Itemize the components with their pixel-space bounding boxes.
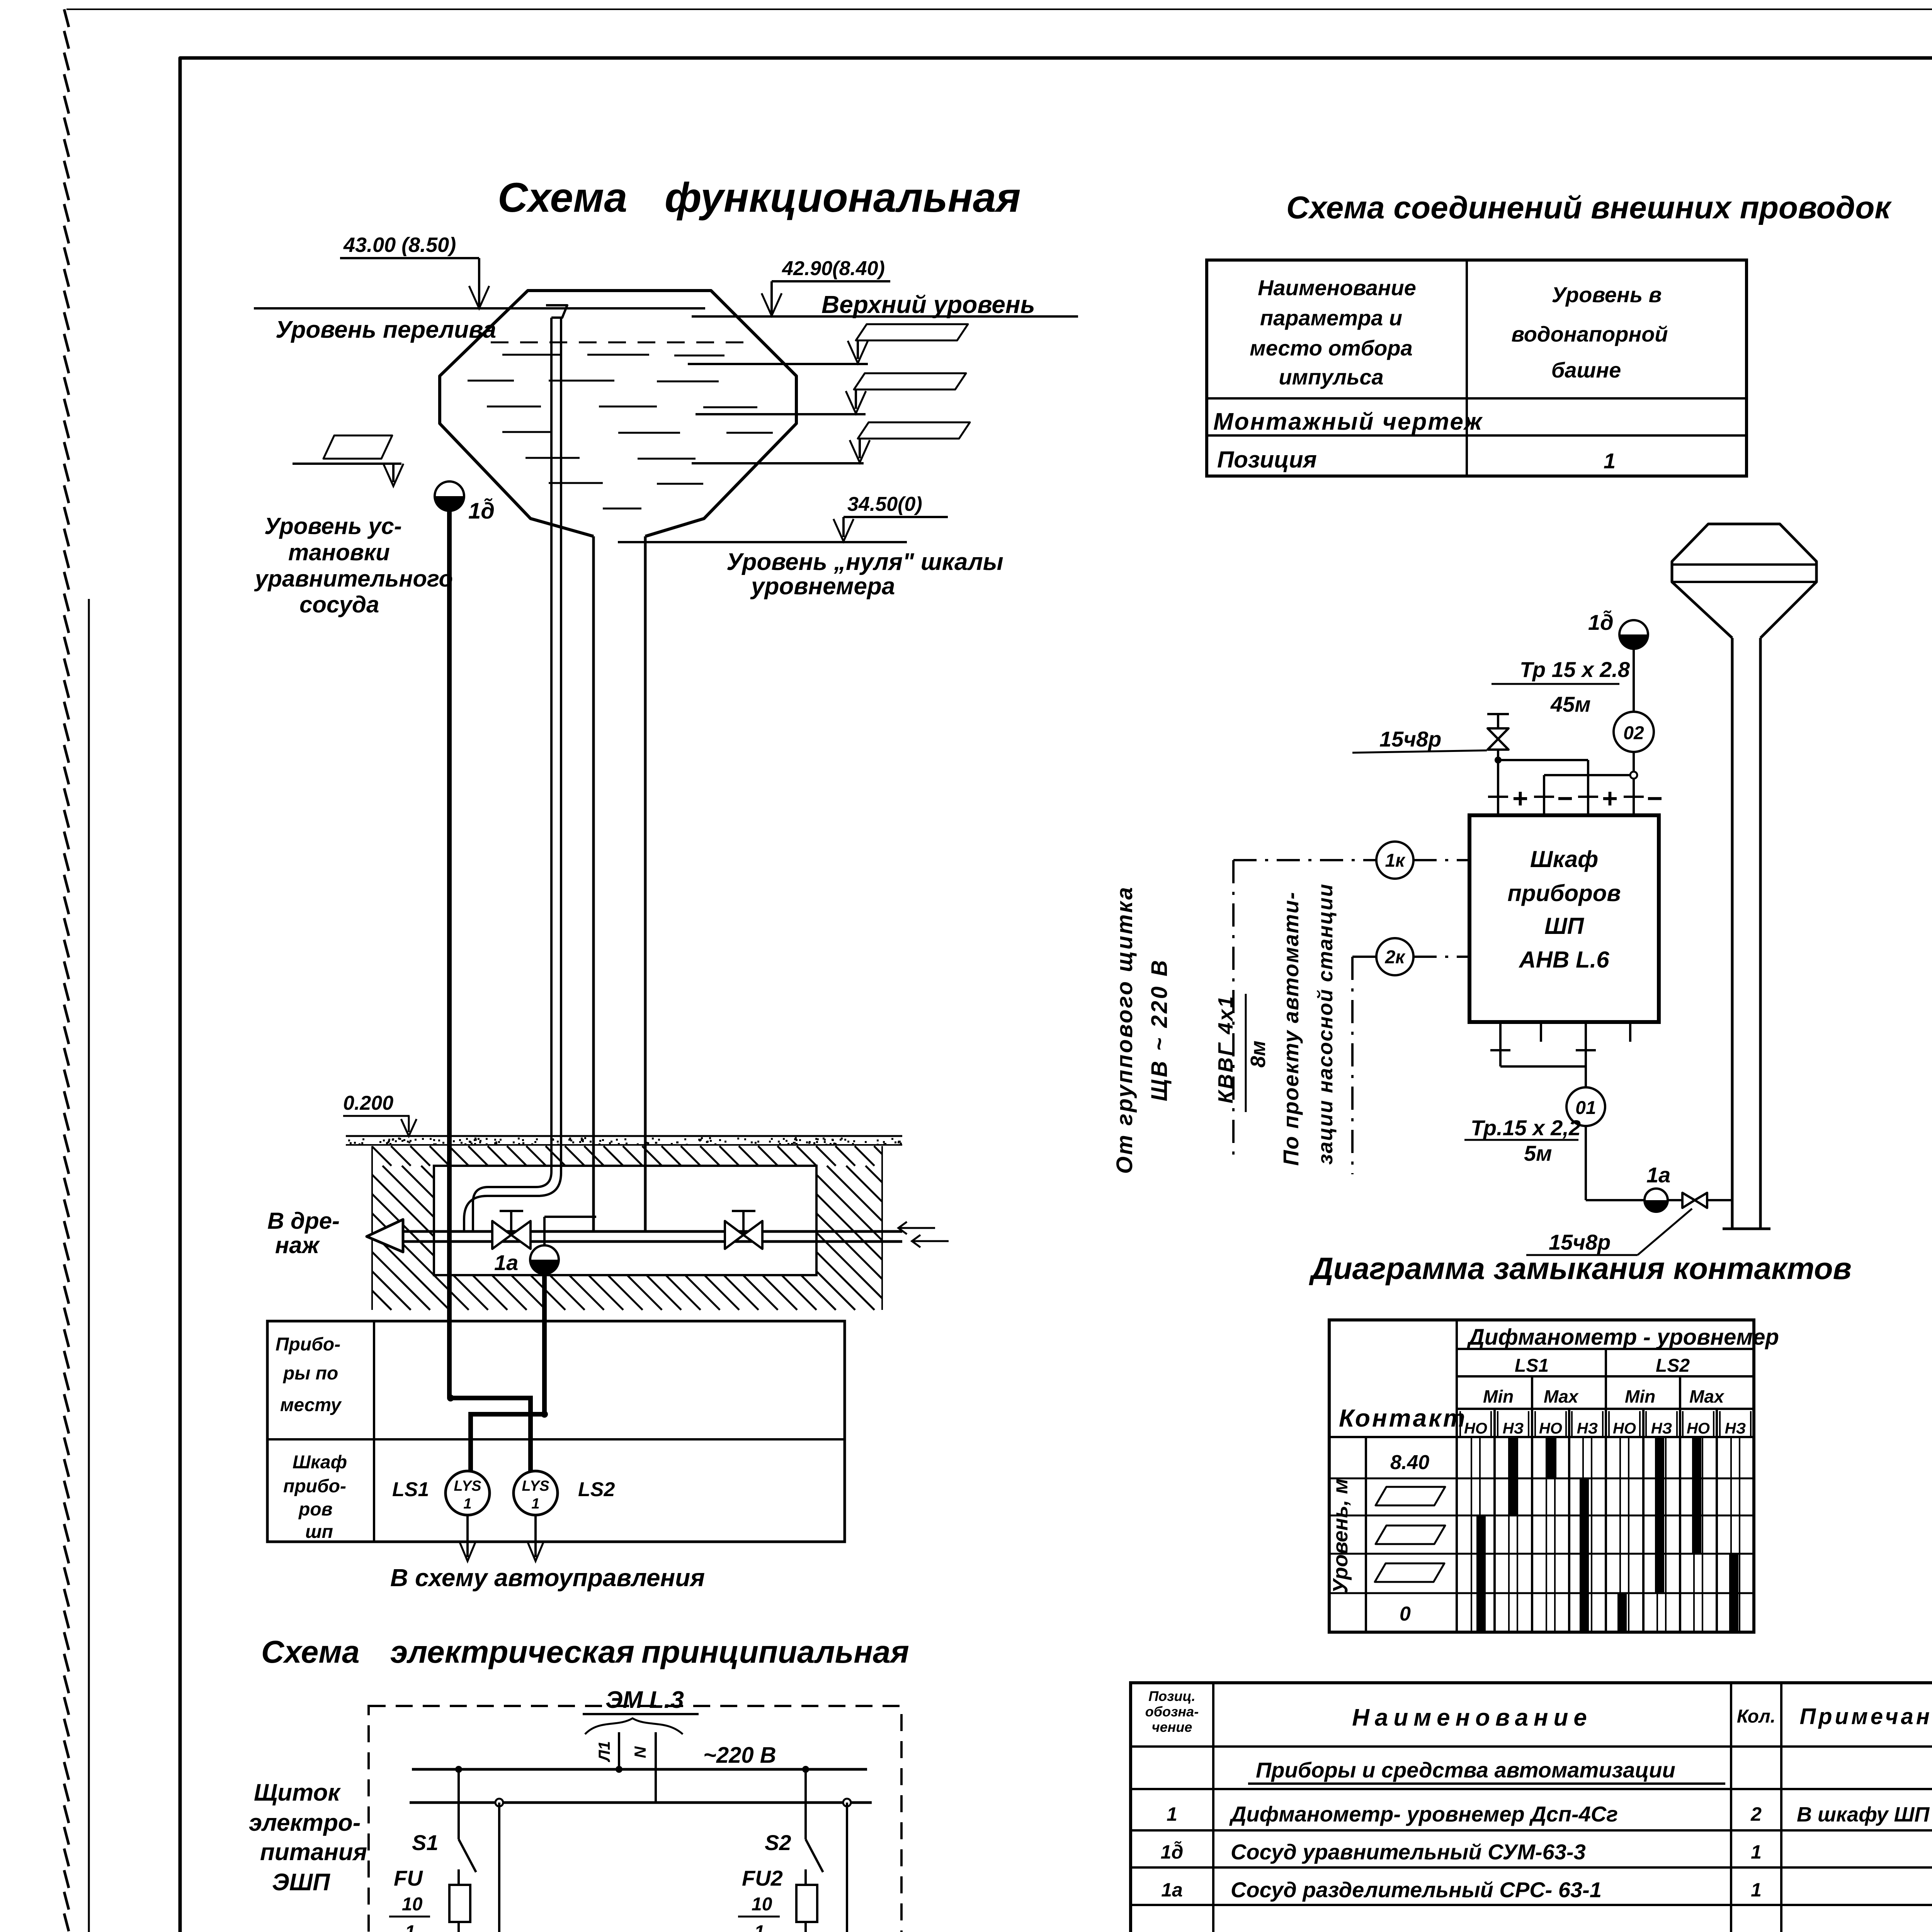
level switch instrument LYS 1 (right circle): [514, 1471, 558, 1515]
drain pipe: [403, 1231, 902, 1242]
label 15ч8р with leader at tower base: [1526, 1209, 1692, 1255]
svg-text:15ч8р: 15ч8р: [1379, 727, 1441, 751]
svg-text:обозна-: обозна-: [1145, 1704, 1199, 1719]
НО НЗ labels: [1464, 1420, 1746, 1437]
svg-text:Уровень, м: Уровень, м: [1329, 1478, 1352, 1593]
svg-text:ЭШП: ЭШП: [272, 1869, 330, 1896]
title: Схема соединений внешних проводок: [1286, 190, 1892, 225]
svg-text:LYS: LYS: [522, 1478, 549, 1494]
svg-text:НЗ: НЗ: [1503, 1420, 1524, 1437]
cabinet label Шкаф приборов ШП АНВ L.6: [1507, 846, 1621, 973]
contact wires thin verticals: [1471, 1437, 1740, 1632]
svg-text:НО: НО: [1464, 1420, 1487, 1437]
valve 15ч8р (top left of cabinet): [1487, 714, 1509, 750]
level line 4: [692, 462, 864, 464]
title: Схема функциональная: [498, 174, 1020, 221]
water tower pictogram: [1672, 524, 1816, 1229]
label ЭМ L.3: [583, 1687, 699, 1734]
sheet top edge line: [66, 9, 1932, 10]
table header Уровень в водонапорной башне: [1511, 282, 1668, 382]
zero level line: [618, 541, 907, 543]
svg-text:шп: шп: [305, 1522, 333, 1542]
label 15ч8р with leader: [1352, 727, 1487, 753]
fuse FU2: [738, 1866, 817, 1932]
equalizing vessel 1д symbol: [435, 481, 464, 511]
svg-text:5м: 5м: [1524, 1141, 1552, 1165]
neutral wire to Б2 of LS1: [483, 1803, 500, 1932]
svg-text:2к: 2к: [1384, 947, 1406, 968]
svg-text:15ч8р: 15ч8р: [1549, 1230, 1611, 1254]
svg-text:АНВ L.6: АНВ L.6: [1518, 947, 1609, 973]
output arrows to automation: [460, 1515, 543, 1561]
svg-text:0.200: 0.200: [343, 1092, 393, 1114]
label Уровень нуля шкалы уровнемера: [726, 549, 1003, 600]
parts row 1а сосуд разделительный: [1161, 1878, 1762, 1902]
parameters table: [1207, 260, 1747, 476]
level line 3: [696, 413, 866, 415]
svg-text:LS2: LS2: [1656, 1355, 1690, 1376]
svg-text:Тр 15 х 2.8: Тр 15 х 2.8: [1520, 657, 1630, 682]
switch S1: [412, 1769, 476, 1872]
svg-text:−: −: [1647, 783, 1663, 813]
label Верхний уровень: [821, 291, 1035, 318]
impulse line from vessel 1a (thick): [471, 1274, 548, 1471]
level switch instrument LYS 1 (left circle): [446, 1471, 490, 1515]
title: Схема электрическая принципиальная: [261, 1634, 909, 1670]
svg-text:чение: чение: [1152, 1719, 1192, 1735]
svg-text:1: 1: [405, 1922, 415, 1932]
level flag 3 (parallelogram): [850, 422, 970, 463]
level value 0: [1400, 1603, 1411, 1625]
label Уровень перелива: [276, 316, 496, 343]
svg-text:~220 В: ~220 В: [703, 1743, 776, 1768]
svg-text:S1: S1: [412, 1830, 439, 1855]
svg-text:1д̃: 1д̃: [1161, 1841, 1184, 1863]
header Контакт: [1339, 1404, 1467, 1432]
svg-text:зации насосной станции: зации насосной станции: [1314, 883, 1337, 1165]
drain arrow head: [367, 1219, 403, 1252]
cable 1к circle and dash-dot run: [1233, 842, 1469, 1162]
svg-text:Наименование: Наименование: [1258, 276, 1416, 300]
svg-text:Монтажный чертеж: Монтажный чертеж: [1213, 408, 1483, 435]
svg-text:функциональная: функциональная: [665, 174, 1020, 221]
svg-text:НО: НО: [1613, 1420, 1636, 1437]
svg-text:8.40: 8.40: [1390, 1451, 1429, 1474]
svg-text:башне: башне: [1551, 358, 1621, 382]
svg-text:Схема соединений внешних пр: Схема соединений внешних проводок: [1286, 190, 1892, 225]
level value 8.40: [1390, 1451, 1429, 1474]
tank support shaft right wall: [644, 536, 647, 1231]
svg-text:сосуда: сосуда: [299, 592, 379, 617]
svg-text:1д̃: 1д̃: [468, 498, 495, 524]
row Позиция: [1217, 447, 1616, 473]
second valve on pipe: [725, 1211, 762, 1249]
svg-text:питания: питания: [260, 1839, 367, 1866]
svg-text:Дифманометр- уровнемер Дс: Дифманометр- уровнемер Дсп-4Сг: [1229, 1802, 1618, 1826]
separating vessel 1a (wiring diagram): [1645, 1163, 1670, 1212]
label 1д: [468, 498, 495, 524]
svg-text:НО: НО: [1539, 1420, 1562, 1437]
svg-text:02: 02: [1623, 723, 1644, 743]
concrete hatching around instrument pit: [372, 1146, 882, 1310]
label Уровень установки уравнительного сосуда: [254, 513, 453, 617]
parts row 1 дифманометр: [1167, 1802, 1930, 1826]
contact diagram table grid: [1329, 1320, 1754, 1632]
svg-text:8м: 8м: [1247, 1041, 1270, 1068]
svg-text:Min: Min: [1483, 1386, 1514, 1406]
svg-text:место отбора: место отбора: [1250, 336, 1412, 360]
instrument location table: [267, 1321, 845, 1542]
svg-text:НЗ: НЗ: [1577, 1420, 1598, 1437]
svg-text:Приборы и средства автомати: Приборы и средства автоматизации: [1256, 1758, 1675, 1782]
svg-text:S2: S2: [765, 1830, 791, 1855]
impulse line from 1д down to cabinet: [1633, 649, 1635, 775]
svg-text:1а: 1а: [1646, 1163, 1670, 1187]
water tank (octagon) of functional schema: [440, 291, 796, 536]
svg-text:10: 10: [752, 1894, 772, 1915]
fuse FU: [389, 1866, 470, 1932]
cable 2к circle and dash-dot run: [1352, 938, 1469, 1174]
svg-text:Щиток: Щиток: [254, 1779, 341, 1806]
level label 42.90(8.40): [762, 257, 890, 316]
svg-text:КВВГ 4х1: КВВГ 4х1: [1214, 995, 1237, 1103]
label ~220 В: [703, 1743, 776, 1768]
svg-text:НЗ: НЗ: [1725, 1420, 1746, 1437]
contact diagram Min Max headers: [1483, 1386, 1725, 1406]
svg-text:Кол.: Кол.: [1737, 1706, 1776, 1727]
svg-text:LS2: LS2: [578, 1478, 615, 1501]
svg-text:параметра и: параметра и: [1260, 306, 1402, 330]
instrument pit walls: [372, 1146, 882, 1310]
svg-text:Max: Max: [1689, 1386, 1725, 1406]
svg-text:Схема: Схема: [261, 1634, 360, 1670]
contact diagram header LS1: [1515, 1355, 1549, 1376]
flow direction arrows at right: [898, 1222, 949, 1247]
overflow level line: [254, 307, 705, 310]
minus impulse routing into cabinet: [1544, 772, 1637, 815]
water surface dashed line: [491, 342, 745, 344]
wire N from ЭМ: [631, 1732, 656, 1803]
level label 43.00 (8.50): [340, 233, 489, 308]
svg-text:1к: 1к: [1385, 850, 1406, 871]
plus impulse routing into cabinet: [1495, 750, 1588, 815]
svg-text:НО: НО: [1687, 1420, 1710, 1437]
svg-text:Наименование: Наименование: [1352, 1704, 1592, 1731]
row Монтажный чертеж: [1213, 408, 1483, 435]
contact closure black bars: [1476, 1437, 1738, 1632]
wire Л1 from ЭМ: [595, 1732, 619, 1769]
title: Диаграмма замыкания контактов: [1309, 1251, 1852, 1286]
instrument cabinet ШП box: [1469, 815, 1659, 1022]
neutral bus wire: [410, 1799, 872, 1806]
svg-text:LYS: LYS: [454, 1478, 481, 1494]
svg-text:1: 1: [1167, 1803, 1177, 1825]
valve 1a on drain pipe: [492, 1211, 531, 1249]
svg-text:43.00 (8.50): 43.00 (8.50): [343, 233, 456, 257]
svg-text:электро-: электро-: [249, 1810, 361, 1836]
svg-text:Тр.15 х 2,2: Тр.15 х 2,2: [1471, 1116, 1581, 1140]
svg-text:Сосуд уравнительный СУМ: Сосуд уравнительный СУМ-63-3: [1231, 1840, 1586, 1864]
svg-text:Шкаф: Шкаф: [293, 1452, 347, 1473]
parts row 1д сосуд уравнительный: [1161, 1840, 1762, 1864]
contact diagram header Дифманометр-уровнемер: [1466, 1325, 1779, 1350]
svg-text:42.90(8.40): 42.90(8.40): [782, 257, 885, 280]
svg-text:прибо-: прибо-: [283, 1476, 346, 1497]
svg-text:тановки: тановки: [288, 539, 390, 565]
svg-text:Верхний уровень: Верхний уровень: [821, 291, 1035, 318]
svg-text:Контакт: Контакт: [1339, 1404, 1467, 1432]
rotated label Уровень, м: [1329, 1478, 1352, 1593]
phase bus wire: [412, 1766, 867, 1773]
svg-text:ШП: ШП: [1544, 913, 1585, 939]
svg-text:1: 1: [754, 1922, 765, 1932]
level line 2: [688, 363, 868, 365]
separating vessel 1a symbol in pit: [530, 1217, 596, 1274]
svg-text:Уровень в: Уровень в: [1552, 282, 1662, 307]
water surface strokes inside tank: [468, 355, 773, 509]
switch S2: [765, 1769, 823, 1872]
svg-text:месту: месту: [280, 1395, 342, 1415]
svg-text:Дифманометр - уровнемер: Дифманометр - уровнемер: [1466, 1325, 1779, 1350]
svg-text:По проекту автомати-: По проекту автомати-: [1279, 891, 1303, 1166]
svg-text:ЩВ ~ 220 В: ЩВ ~ 220 В: [1147, 958, 1172, 1101]
label В схему автоуправления: [390, 1564, 705, 1592]
svg-text:приборов: приборов: [1507, 880, 1621, 906]
label Шкаф приборов шп: [283, 1452, 347, 1542]
svg-text:1: 1: [1751, 1841, 1762, 1863]
elevation label 0.200: [343, 1092, 417, 1136]
svg-text:От группового щитка: От группового щитка: [1112, 886, 1137, 1174]
svg-text:Уровень „нуля" шкалы: Уровень „нуля" шкалы: [726, 549, 1003, 575]
svg-text:Позиция: Позиция: [1217, 447, 1317, 473]
upper level line: [692, 315, 1078, 318]
svg-text:2: 2: [1750, 1803, 1762, 1825]
svg-text:принципиальная: принципиальная: [641, 1634, 909, 1670]
svg-text:уравнительного: уравнительного: [254, 566, 453, 592]
label В дренаж: [267, 1208, 340, 1258]
cabinet bottom stubs: [1490, 1022, 1630, 1088]
svg-text:10: 10: [402, 1894, 423, 1915]
svg-text:Позиц.: Позиц.: [1148, 1688, 1196, 1704]
svg-text:+: +: [1512, 783, 1528, 813]
svg-text:Сосуд разделительный СРС-: Сосуд разделительный СРС- 63-1: [1231, 1878, 1602, 1902]
instrument circle 02: [1614, 712, 1654, 752]
ground surface speckled line: [346, 1136, 902, 1146]
impulse line 1д routing to LS2 (thick): [447, 1395, 531, 1471]
svg-text:В дре-: В дре-: [267, 1208, 340, 1234]
svg-text:В шкафу ШП: В шкафу ШП: [1797, 1803, 1930, 1826]
neutral wire to Б2 of LS2: [831, 1803, 848, 1932]
level label 34.50(0): [833, 493, 948, 541]
svg-text:В схему автоуправления: В схему автоуправления: [390, 1564, 705, 1592]
terminal ticks and signs at cabinet top: [1488, 783, 1663, 813]
tank support shaft left wall: [592, 536, 595, 1231]
svg-text:0: 0: [1400, 1603, 1411, 1625]
parts list table grid: [1131, 1683, 1932, 1932]
overflow tube walls: [464, 318, 561, 1231]
svg-text:LS1: LS1: [392, 1478, 429, 1501]
svg-text:Max: Max: [1544, 1386, 1579, 1406]
rotated label По проекту автоматизации насосной станции: [1279, 883, 1337, 1166]
rotated label От группового щитка ЩВ ~220В: [1112, 886, 1172, 1174]
svg-text:1: 1: [1604, 449, 1616, 473]
level parallelogram rows: [1375, 1487, 1445, 1582]
svg-text:Уровень ус-: Уровень ус-: [264, 513, 402, 539]
svg-text:Диаграмма замыкания контакт: Диаграмма замыкания контактов: [1309, 1251, 1852, 1286]
sheet left torn edge zigzag: [64, 9, 69, 1932]
svg-text:уровнемера: уровнемера: [750, 573, 895, 600]
impulse line from 01 to tower: [1586, 1126, 1645, 1200]
svg-text:ров: ров: [298, 1499, 333, 1520]
table header Наименование параметра: [1250, 276, 1416, 389]
contact diagram header LS2: [1656, 1355, 1690, 1376]
impulse tube label Тр.15х2,2 / 5м: [1464, 1116, 1581, 1165]
level flag 2 (parallelogram): [846, 373, 966, 413]
impulse line from vessel 1д (thick): [447, 511, 452, 1398]
svg-text:Уровень перелива: Уровень перелива: [276, 316, 496, 343]
label 1а (pit valve): [494, 1250, 518, 1275]
svg-text:−: −: [1557, 783, 1573, 813]
svg-text:наж: наж: [275, 1232, 320, 1258]
svg-text:импульса: импульса: [1279, 365, 1383, 389]
label LS2: [578, 1478, 615, 1501]
svg-text:+: +: [1602, 783, 1618, 813]
svg-text:1: 1: [531, 1496, 539, 1512]
parts table headers: [1145, 1688, 1932, 1735]
svg-text:ры по: ры по: [282, 1363, 338, 1384]
svg-text:1а: 1а: [494, 1250, 518, 1275]
instrument circle 01: [1566, 1087, 1605, 1126]
svg-text:45м: 45м: [1550, 692, 1591, 716]
svg-text:FU: FU: [394, 1866, 423, 1890]
rotated cable label КВВГ 4х1 8м: [1214, 994, 1270, 1112]
equalizing vessel 1д (wiring diagram): [1588, 610, 1648, 649]
svg-text:LS1: LS1: [1515, 1355, 1549, 1376]
svg-text:Min: Min: [1625, 1386, 1655, 1406]
svg-text:Схема: Схема: [498, 174, 627, 221]
svg-text:электрическая: электрическая: [390, 1634, 634, 1670]
equalizing vessel level flag: [293, 435, 403, 486]
sheet left fold line: [88, 599, 90, 1932]
svg-text:Примечание: Примечание: [1799, 1704, 1932, 1729]
dashed enclosure ЭШП: [369, 1706, 901, 1932]
svg-text:Л1: Л1: [595, 1741, 613, 1762]
svg-text:N: N: [631, 1746, 649, 1758]
svg-text:FU2: FU2: [742, 1866, 783, 1890]
svg-text:НЗ: НЗ: [1651, 1420, 1672, 1437]
svg-text:ЭМ L.3: ЭМ L.3: [605, 1687, 684, 1713]
overflow tube funnel: [546, 305, 567, 318]
impulse tube label Тр 15x2.8 / 45м: [1492, 657, 1630, 716]
parts section Приборы и средства автоматизации: [1248, 1758, 1725, 1784]
svg-text:1: 1: [1751, 1879, 1762, 1901]
svg-text:Прибо-: Прибо-: [276, 1334, 340, 1355]
svg-text:1: 1: [463, 1496, 471, 1512]
svg-text:Шкаф: Шкаф: [1530, 846, 1598, 872]
level flag 1 (parallelogram): [848, 324, 968, 363]
label LS1: [392, 1478, 429, 1501]
label Приборы по месту: [276, 1334, 342, 1415]
svg-text:водонапорной: водонапорной: [1511, 322, 1668, 346]
svg-text:1д̃: 1д̃: [1588, 610, 1614, 634]
label Щиток электропитания ЭШП: [249, 1779, 367, 1896]
valve 15ч8р at tower base: [1668, 1193, 1732, 1208]
svg-text:1а: 1а: [1161, 1879, 1183, 1901]
svg-text:34.50(0): 34.50(0): [847, 493, 922, 515]
